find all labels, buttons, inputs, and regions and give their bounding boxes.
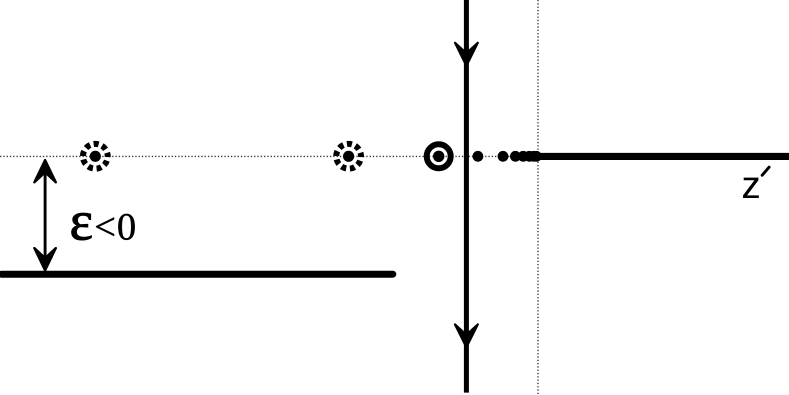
- horizontal dotted axis (real axis): [0, 155, 540, 157]
- pole P3: solid circle with center dot: [427, 144, 451, 168]
- pole P1 center dot: [90, 151, 101, 162]
- bound-state dot 5: [524, 151, 535, 162]
- gap arrow shaft: [44, 170, 47, 260]
- double-headed arrow for epsilon gap: [34, 160, 55, 270]
- contour arrowhead (top, pointing down): [455, 43, 478, 66]
- bound-state dot 6: [528, 151, 539, 162]
- pole P1: dotted circle with center dot: [81, 142, 109, 170]
- gap arrowhead up: [34, 160, 55, 182]
- gap arrowhead down: [34, 248, 55, 270]
- lower energy level: thick line from left edge: [2, 271, 393, 278]
- pole P3 solid ring: [427, 144, 451, 168]
- glyph zero: [118, 214, 134, 240]
- axis label z': [743, 167, 769, 198]
- pole P2 dashed ring: [335, 142, 363, 170]
- bound-state dot 2: [498, 151, 509, 162]
- glyph epsilon: [72, 213, 92, 240]
- branch cut: thick line to right edge: [536, 153, 789, 160]
- vertical dotted guide line at branch point: [537, 0, 539, 395]
- prime mark: [762, 167, 769, 175]
- label epsilon < 0: [72, 213, 135, 240]
- pole P1 dashed ring: [81, 142, 109, 170]
- bound-state dot 7: [531, 151, 542, 162]
- bound-state dot 1: [473, 151, 484, 162]
- pole P2: dotted circle with center dot: [335, 142, 363, 170]
- bound-state dot 3: [510, 151, 521, 162]
- bound-state dot 4: [518, 151, 529, 162]
- glyph less-than: [96, 217, 114, 236]
- contour arrowhead (bottom, pointing down): [455, 324, 478, 347]
- accumulating eigenvalue dots toward branch point: [473, 151, 542, 162]
- pole P2 center dot: [343, 151, 354, 162]
- pole P3 center dot: [433, 151, 444, 162]
- letter z: [743, 178, 759, 198]
- contour: thick vertical line: [464, 0, 469, 393]
